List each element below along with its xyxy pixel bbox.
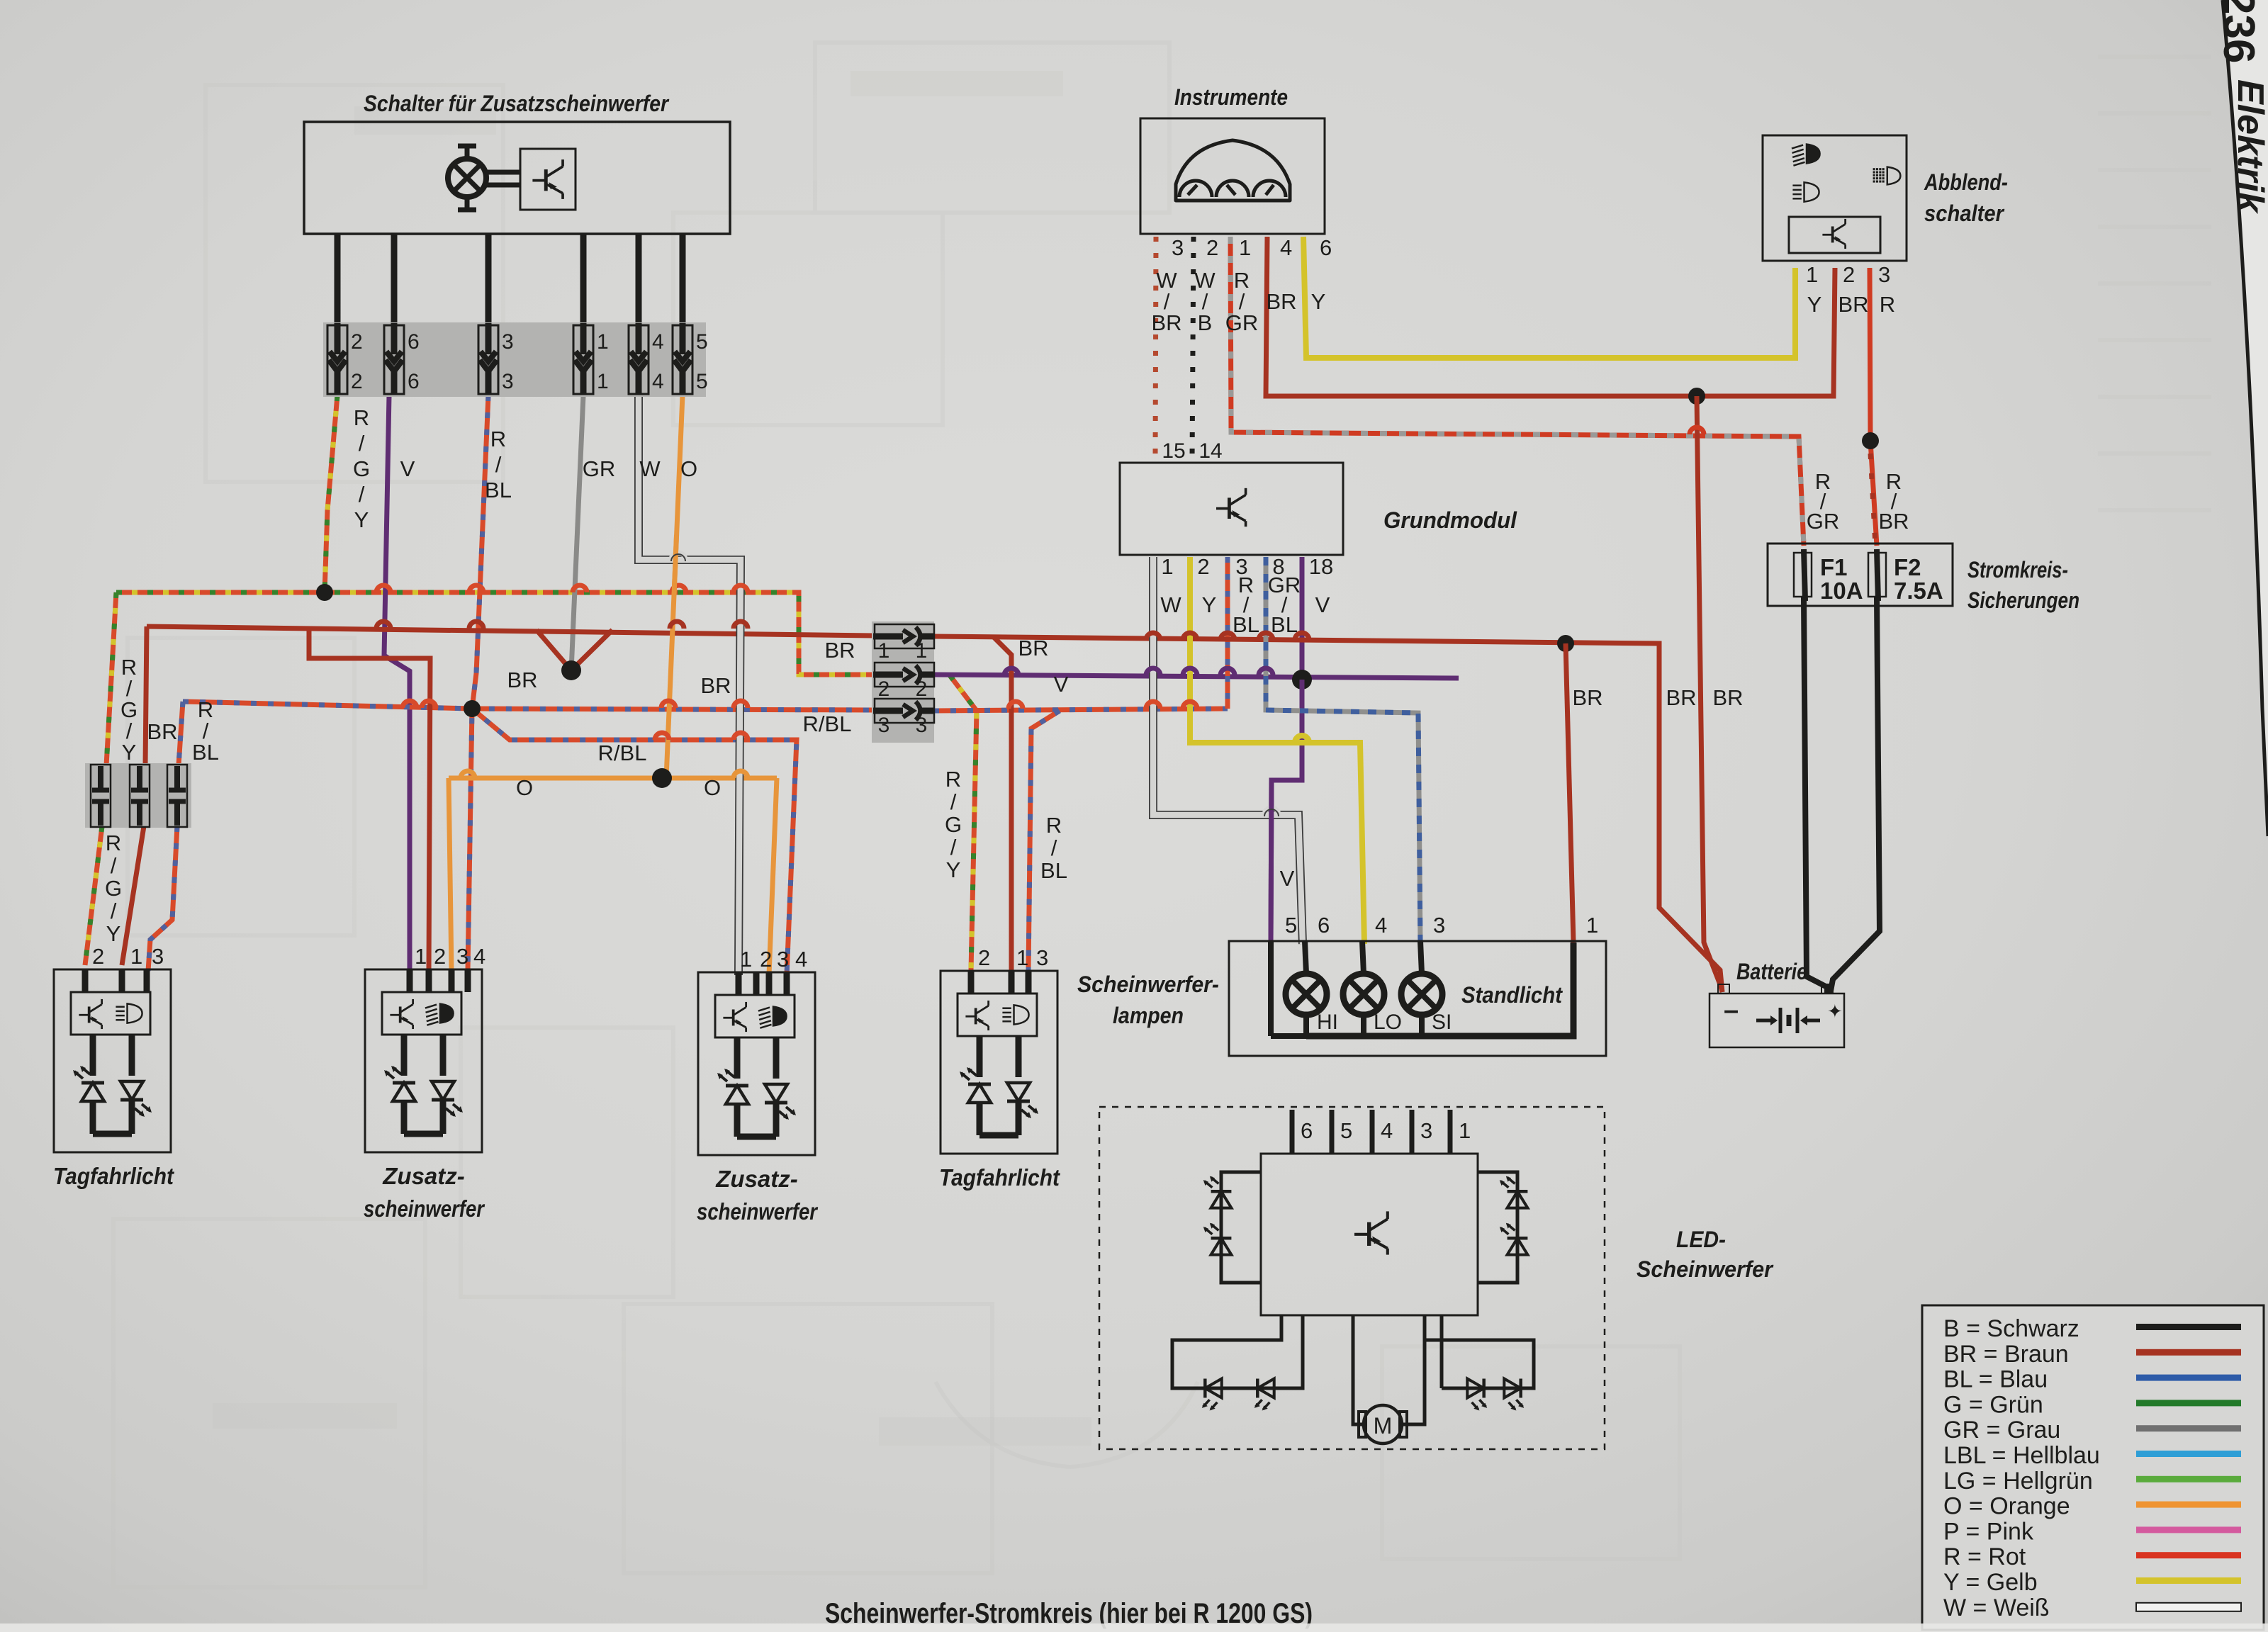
wire: BR branch to Zusatz1 pin2 bbox=[309, 628, 430, 971]
svg-text:5: 5 bbox=[696, 370, 708, 393]
svg-text:4: 4 bbox=[1280, 235, 1292, 260]
wire: R/GR from instrument pin1 to fuse F1 bbox=[1230, 237, 1804, 546]
node BR bbox=[1688, 388, 1705, 405]
svg-text:BR: BR bbox=[1018, 636, 1048, 660]
svg-text:1: 1 bbox=[1161, 554, 1173, 579]
svg-text:GR: GR bbox=[1225, 310, 1259, 335]
svg-text:7.5A: 7.5A bbox=[1894, 578, 1943, 604]
svg-text:2: 2 bbox=[351, 330, 363, 354]
svg-text:R: R bbox=[490, 427, 506, 451]
svg-text:2: 2 bbox=[978, 945, 990, 970]
svg-text:236: 236 bbox=[2214, 0, 2263, 63]
page edge (book page behind) bbox=[2223, 0, 2268, 836]
wire hop bumps on buses bbox=[376, 585, 391, 592]
svg-text:G: G bbox=[945, 812, 962, 837]
inline connector 3-3 bbox=[873, 699, 934, 723]
svg-text:BR: BR bbox=[147, 719, 177, 744]
fuse F1 bbox=[1804, 549, 1805, 601]
svg-text:W: W bbox=[1160, 592, 1181, 617]
svg-text:3: 3 bbox=[1172, 235, 1184, 260]
svg-text:Stromkreis-: Stromkreis- bbox=[1967, 557, 2068, 583]
svg-text:R: R bbox=[945, 767, 961, 792]
svg-text:2: 2 bbox=[760, 947, 772, 972]
svg-text:Schalter für Zusatzscheinwerfe: Schalter für Zusatzscheinwerfer bbox=[364, 91, 669, 116]
svg-text:4: 4 bbox=[652, 330, 664, 354]
svg-text:LED-: LED- bbox=[1676, 1227, 1726, 1252]
svg-text:3: 3 bbox=[777, 947, 789, 972]
svg-text:/: / bbox=[950, 789, 957, 814]
wire: R/BL from switch connector 3 through node to Zusatz1 pin4 bbox=[468, 395, 488, 971]
inline connector 2-2 bbox=[873, 663, 934, 687]
svg-text:3: 3 bbox=[878, 714, 890, 737]
svg-text:LO: LO bbox=[1374, 1011, 1402, 1034]
wire: R/BL bus H5 lower bbox=[472, 709, 797, 975]
svg-text:/: / bbox=[111, 853, 117, 878]
svg-text:LBL = Hellblau: LBL = Hellblau bbox=[1943, 1442, 2100, 1469]
svg-text:V: V bbox=[1054, 672, 1069, 697]
svg-text:Scheinwerfer: Scheinwerfer bbox=[1637, 1256, 1773, 1282]
lamp LO bbox=[1343, 974, 1384, 1015]
node on V bus bbox=[1292, 670, 1312, 690]
lamp SI bbox=[1401, 974, 1442, 1015]
svg-text:5: 5 bbox=[1285, 913, 1297, 938]
svg-text:F1: F1 bbox=[1820, 554, 1848, 580]
svg-text:18: 18 bbox=[1309, 554, 1333, 579]
wire: W Grundmodul pin1 to Standlicht pin6 bbox=[1153, 557, 1303, 944]
connector pin 1/1 bbox=[573, 323, 593, 394]
svg-text:/: / bbox=[950, 835, 957, 860]
wire: R/BL Grundmodul pin3 leg bbox=[1225, 557, 1230, 709]
svg-text:1: 1 bbox=[1016, 945, 1028, 970]
bottom page edge highlight bbox=[0, 1623, 2268, 1632]
svg-text:P = Pink: P = Pink bbox=[1943, 1518, 2034, 1545]
component: Grundmodul bbox=[1120, 463, 1343, 555]
svg-text:R: R bbox=[1046, 813, 1062, 838]
component: LED-Scheinwerfer (dashed enclosure) bbox=[1099, 1107, 1605, 1449]
wire: R/BL diagonal to Tagfahrlicht(right) pin3 bbox=[1028, 711, 1060, 971]
connector pin 4/4 bbox=[629, 323, 649, 394]
svg-text:2: 2 bbox=[916, 677, 928, 701]
connector band bbox=[323, 322, 706, 397]
wire: W/BR dotted instrument pin3 bbox=[1155, 237, 1156, 461]
svg-text:O = Orange: O = Orange bbox=[1943, 1493, 2070, 1520]
svg-text:SI: SI bbox=[1432, 1011, 1452, 1034]
wire: BR instrument pin4 to dim switch pin2 bbox=[1266, 237, 1835, 396]
svg-text:10A: 10A bbox=[1820, 578, 1863, 604]
svg-text:4: 4 bbox=[1375, 913, 1387, 938]
svg-text:1: 1 bbox=[740, 947, 752, 972]
bulb symbol in switch bbox=[448, 146, 520, 210]
svg-text:Zusatz-: Zusatz- bbox=[715, 1166, 798, 1192]
svg-text:4: 4 bbox=[473, 944, 485, 969]
svg-text:5: 5 bbox=[1340, 1118, 1352, 1143]
svg-text:Scheinwerfer-: Scheinwerfer- bbox=[1077, 972, 1219, 997]
svg-text:3: 3 bbox=[456, 944, 468, 969]
svg-text:Batterie: Batterie bbox=[1736, 959, 1807, 984]
connector pin 5/5 bbox=[673, 323, 692, 394]
wire: black F1 to battery + bbox=[1804, 597, 1827, 995]
svg-text:Tagfahrlicht: Tagfahrlicht bbox=[939, 1164, 1061, 1191]
connector pin 6/6 bbox=[384, 323, 404, 394]
svg-text:schalter: schalter bbox=[1924, 201, 2004, 226]
svg-text:R: R bbox=[1880, 292, 1895, 317]
svg-text:2: 2 bbox=[92, 944, 104, 969]
svg-text:5: 5 bbox=[696, 330, 708, 354]
wire: R/BL left leg to Tagfahrlicht pin3 bbox=[148, 702, 183, 971]
svg-text:6: 6 bbox=[408, 370, 420, 393]
svg-text:/: / bbox=[495, 452, 502, 477]
svg-text:O: O bbox=[704, 775, 721, 800]
svg-text:Grundmodul: Grundmodul bbox=[1383, 507, 1517, 533]
LED module inner box bbox=[1261, 1154, 1478, 1315]
svg-text:R: R bbox=[106, 831, 121, 855]
wire: BR bus right of connector row1 bbox=[933, 636, 1722, 992]
svg-text:1: 1 bbox=[597, 370, 609, 393]
svg-text:✦: ✦ bbox=[1827, 1001, 1843, 1022]
node junction R/BL bbox=[464, 700, 481, 717]
svg-text:B: B bbox=[1198, 310, 1213, 335]
splice connector bbox=[91, 765, 111, 827]
svg-text:1: 1 bbox=[597, 330, 609, 354]
svg-text:1: 1 bbox=[1806, 262, 1818, 287]
fuse F2 bbox=[1877, 549, 1878, 601]
svg-text:scheinwerfer: scheinwerfer bbox=[697, 1198, 819, 1225]
connector block (3 inline connectors) bbox=[872, 621, 934, 743]
svg-text:Y: Y bbox=[122, 740, 137, 765]
svg-text:BR: BR bbox=[1151, 310, 1181, 335]
svg-text:BL: BL bbox=[1040, 858, 1067, 883]
svg-text:M: M bbox=[1374, 1413, 1393, 1439]
wire: black F2 to battery + bbox=[1830, 597, 1880, 995]
connector pin 3/3 bbox=[478, 323, 498, 394]
svg-text:GR: GR bbox=[583, 456, 616, 481]
wire: BR triangle at GR node bbox=[537, 630, 612, 670]
svg-text:–: – bbox=[1724, 996, 1739, 1025]
svg-text:BL: BL bbox=[485, 478, 512, 502]
svg-text:2: 2 bbox=[1206, 235, 1218, 260]
motor M bbox=[1353, 1315, 1362, 1424]
svg-text:Instrumente: Instrumente bbox=[1174, 84, 1288, 110]
component: Zusatz-scheinwerfer (right) bbox=[698, 972, 815, 1155]
wire: W/B dotted instrument pin2 bbox=[1192, 237, 1194, 461]
svg-text:GR = Grau: GR = Grau bbox=[1943, 1417, 2060, 1444]
svg-text:2: 2 bbox=[1843, 262, 1855, 287]
svg-text:3: 3 bbox=[502, 330, 514, 354]
component: Tagfahrlicht (right) bbox=[941, 971, 1057, 1154]
svg-text:1: 1 bbox=[878, 639, 890, 663]
svg-text:3: 3 bbox=[1433, 913, 1445, 938]
svg-text:V: V bbox=[400, 456, 415, 481]
svg-text:1: 1 bbox=[1586, 913, 1598, 938]
svg-text:3: 3 bbox=[1420, 1118, 1432, 1143]
svg-text:B = Schwarz: B = Schwarz bbox=[1943, 1315, 2079, 1342]
connector pin 2/2 bbox=[327, 323, 347, 394]
svg-text:4: 4 bbox=[1381, 1118, 1393, 1143]
svg-text:/: / bbox=[111, 899, 117, 923]
wire: V from switch connector 6 to Zusatz1 pin1 bbox=[384, 395, 410, 971]
switch contact sub-box bbox=[520, 149, 576, 210]
wire: O to Zusatz1 pin3 bbox=[449, 778, 451, 971]
svg-text:3: 3 bbox=[152, 944, 164, 969]
wire: R/BL bus H4 bbox=[183, 702, 873, 710]
svg-text:Y = Gelb: Y = Gelb bbox=[1943, 1569, 2038, 1596]
wire: BR drop to Tagfahrlicht(right) pin1 bbox=[993, 636, 1011, 975]
svg-text:BR: BR bbox=[824, 638, 855, 663]
right LED chain loop bbox=[1478, 1172, 1517, 1283]
component: Tagfahrlicht (left) bbox=[54, 969, 171, 1152]
wire: R/G/Y branch to Tagfahrlicht(right) pin2 bbox=[950, 675, 977, 971]
wire: R/G/Y bus H1 bbox=[116, 592, 873, 675]
node R bbox=[1862, 432, 1879, 449]
svg-text:BR: BR bbox=[1666, 685, 1696, 710]
svg-text:1: 1 bbox=[415, 944, 427, 969]
svg-text:2: 2 bbox=[434, 944, 446, 969]
svg-text:3: 3 bbox=[1036, 945, 1048, 970]
svg-text:1: 1 bbox=[1459, 1118, 1471, 1143]
svg-text:Tagfahrlicht: Tagfahrlicht bbox=[53, 1163, 175, 1189]
svg-text:R/BL: R/BL bbox=[803, 711, 852, 736]
wire: BR bus H2 bbox=[147, 626, 873, 636]
svg-text:1: 1 bbox=[130, 944, 142, 969]
splice connector bbox=[167, 765, 187, 827]
svg-text:BR: BR bbox=[1266, 289, 1296, 314]
svg-text:G: G bbox=[353, 456, 370, 481]
component: Abblendschalter bbox=[1763, 135, 1907, 261]
svg-text:15: 15 bbox=[1162, 439, 1185, 463]
node GR/BR bbox=[561, 660, 581, 680]
wire: V Grundmodul pin18 down bbox=[1300, 557, 1305, 680]
node O bus bbox=[652, 768, 672, 788]
svg-text:14: 14 bbox=[1198, 439, 1222, 463]
svg-text:1: 1 bbox=[1239, 235, 1251, 260]
svg-text:BR = Braun: BR = Braun bbox=[1943, 1341, 2069, 1368]
module top pin stubs 6 5 4 3 1 bbox=[1290, 1110, 1295, 1154]
svg-text:BR: BR bbox=[507, 668, 537, 692]
splice band left bbox=[85, 763, 191, 828]
wire: O bus H7 bbox=[449, 776, 777, 781]
svg-text:BR: BR bbox=[1838, 292, 1868, 317]
legend color key box bbox=[1922, 1305, 2264, 1630]
wire: V bus from connector row2 bbox=[933, 675, 1459, 678]
splice connector bbox=[130, 765, 150, 827]
svg-text:3: 3 bbox=[502, 370, 514, 393]
wires: switch box to connectors bbox=[335, 234, 341, 326]
svg-text:Y: Y bbox=[1807, 292, 1822, 317]
wire: BR left leg to Tagfahrlicht pin1 bbox=[122, 626, 147, 965]
svg-text:Y: Y bbox=[1202, 592, 1217, 617]
svg-text:lampen: lampen bbox=[1113, 1003, 1184, 1028]
wire: GR/BL Grundmodul pin8 to Standlicht pin3 bbox=[1266, 557, 1420, 944]
svg-text:Standlicht: Standlicht bbox=[1461, 982, 1563, 1008]
wire: R/G/Y left leg to Tagfahrlicht pin2 bbox=[85, 592, 116, 965]
svg-text:GR: GR bbox=[1807, 509, 1840, 534]
svg-text:2: 2 bbox=[878, 677, 890, 701]
svg-text:BR: BR bbox=[700, 673, 731, 698]
svg-text:4: 4 bbox=[652, 370, 664, 393]
svg-text:HI: HI bbox=[1317, 1011, 1338, 1034]
svg-text:V: V bbox=[1315, 592, 1330, 617]
svg-text:scheinwerfer: scheinwerfer bbox=[364, 1195, 485, 1222]
wire: Y instrument pin6 to dim switch pin1 bbox=[1303, 237, 1795, 358]
svg-text:BL: BL bbox=[1271, 612, 1298, 637]
svg-text:4: 4 bbox=[795, 947, 807, 972]
bottom right LED chain bbox=[1425, 1315, 1534, 1388]
svg-text:LG = Hellgrün: LG = Hellgrün bbox=[1943, 1468, 2093, 1495]
svg-text:2: 2 bbox=[351, 370, 363, 393]
svg-text:W: W bbox=[639, 456, 661, 481]
svg-text:BR: BR bbox=[1878, 509, 1909, 534]
white wire hop over orange bbox=[671, 553, 685, 560]
node BR bus bbox=[1557, 635, 1574, 652]
svg-text:3: 3 bbox=[1878, 262, 1890, 287]
wire: BR to Standlicht pin1 bbox=[1566, 643, 1573, 942]
component: Stromkreis-Sicherungen fuse box bbox=[1768, 544, 1953, 606]
component: Zusatz-scheinwerfer (left) bbox=[365, 969, 482, 1152]
svg-text:R = Rot: R = Rot bbox=[1943, 1543, 2026, 1570]
wire: O to Zusatz2 pin3 bbox=[769, 778, 777, 975]
svg-text:/: / bbox=[359, 482, 365, 507]
wire: V to Standlicht pin5 bbox=[1271, 680, 1302, 942]
lamp HI bbox=[1286, 974, 1327, 1015]
svg-text:/: / bbox=[359, 431, 365, 456]
wire: R dim switch pin3 to fuse F2 bbox=[1870, 268, 1877, 546]
svg-text:Y: Y bbox=[354, 507, 369, 532]
svg-text:6: 6 bbox=[1318, 913, 1330, 938]
svg-text:Abblend-: Abblend- bbox=[1924, 169, 2008, 195]
svg-text:BR: BR bbox=[1712, 685, 1743, 710]
svg-text:6: 6 bbox=[408, 330, 420, 354]
svg-text:Elektrik: Elektrik bbox=[2230, 79, 2268, 215]
wire: O orange from connector 5 bbox=[666, 395, 683, 778]
svg-text:BL: BL bbox=[192, 740, 219, 765]
svg-text:Sicherungen: Sicherungen bbox=[1967, 587, 2079, 613]
svg-text:1: 1 bbox=[916, 639, 928, 663]
svg-text:6: 6 bbox=[1301, 1118, 1313, 1143]
svg-text:G = Grün: G = Grün bbox=[1943, 1391, 2043, 1418]
svg-text:BL = Blau: BL = Blau bbox=[1943, 1366, 2048, 1393]
svg-text:G: G bbox=[105, 876, 122, 901]
svg-text:/: / bbox=[1051, 835, 1057, 860]
svg-text:6: 6 bbox=[1320, 235, 1332, 260]
node on R/G/Y bus bbox=[316, 584, 333, 601]
svg-text:F2: F2 bbox=[1894, 554, 1921, 580]
svg-text:BR: BR bbox=[1572, 685, 1602, 710]
svg-text:W = Weiß: W = Weiß bbox=[1943, 1594, 2050, 1621]
wire: R/G/Y from switch connector 2 bbox=[325, 395, 337, 592]
left LED chain loop bbox=[1221, 1172, 1261, 1283]
bottom left LED chain bbox=[1172, 1315, 1303, 1388]
gauge cluster icon bbox=[1176, 140, 1290, 201]
svg-text:Zusatz-: Zusatz- bbox=[382, 1163, 465, 1189]
svg-text:O: O bbox=[516, 775, 533, 800]
svg-text:BL: BL bbox=[1233, 612, 1259, 637]
svg-text:R/BL: R/BL bbox=[598, 741, 647, 765]
internal black wiring bbox=[1268, 941, 1274, 1036]
wire: W white from connector 4 to Zusatz2 pin1 bbox=[639, 395, 741, 975]
svg-text:O: O bbox=[680, 456, 697, 481]
white wire hop over V bbox=[1264, 808, 1279, 815]
svg-text:Y: Y bbox=[106, 921, 121, 946]
inline connector 1-1 bbox=[873, 624, 934, 648]
svg-text:V: V bbox=[1280, 866, 1295, 891]
wire: BR battery feed bbox=[1697, 396, 1722, 992]
svg-text:R: R bbox=[354, 405, 369, 430]
wire: Y Grundmodul pin2 to Standlicht pin4 bbox=[1190, 557, 1364, 944]
svg-text:Y: Y bbox=[1311, 289, 1326, 314]
wire: GR from switch connector 1 bbox=[571, 395, 583, 670]
svg-text:Y: Y bbox=[946, 857, 961, 882]
svg-text:3: 3 bbox=[916, 714, 928, 737]
svg-text:2: 2 bbox=[1197, 554, 1209, 579]
component: Standlicht / Scheinwerferlampen box bbox=[1229, 941, 1606, 1056]
